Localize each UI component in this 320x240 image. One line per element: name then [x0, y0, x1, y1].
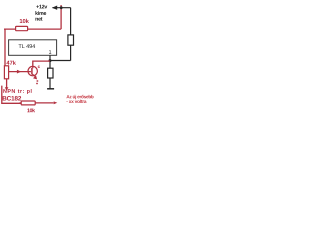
value label 47k — [6, 61, 15, 65]
ground bar — [47, 88, 54, 90]
wire: red riser from +12v node down to 10k row — [60, 5, 62, 29]
arrowhead right on bottom wire — [54, 101, 58, 104]
wire: pot bottom lead — [6, 79, 8, 88]
wire: wiper to transistor base — [9, 71, 31, 73]
transistor base bar — [31, 68, 33, 75]
wire: bottom resistor left stub — [20, 102, 22, 104]
note - xx voltra — [66, 100, 86, 103]
pin label 1 — [49, 50, 51, 54]
value label 10k — [20, 19, 29, 23]
transistor Q1 body circle — [28, 66, 37, 75]
pin label c — [38, 66, 40, 69]
wire: top resistor to junction row — [70, 45, 72, 60]
resistor R1 10k top — [16, 26, 28, 30]
wire: emitter diagonal — [32, 74, 35, 77]
resistor (top right) — [68, 35, 74, 45]
wire: black drop from +12v corner to top resistor — [70, 8, 72, 36]
label BC182 — [3, 96, 22, 101]
wire: bottom resistor to arrow — [35, 102, 54, 104]
wire: junction row horizontal — [50, 60, 71, 62]
node junction on +12v line — [60, 6, 63, 9]
wire: bottom-left L to bottom resistor — [2, 86, 21, 104]
label TL 494 — [19, 44, 36, 48]
arrowhead pointing left toward +12v label — [52, 6, 57, 10]
IC U1 TL494 box — [9, 40, 57, 56]
wire: +12v net horizontal at top — [53, 7, 71, 9]
wire: red left vertical — [4, 29, 6, 66]
wire: collector up to junction row — [33, 61, 50, 68]
wire: red top horizontal — [4, 28, 61, 30]
label NPN tr: pl — [3, 89, 31, 94]
note Az uj erosebb — [66, 95, 93, 99]
value label 10k bottom — [27, 108, 35, 112]
emitter continuation dots — [37, 80, 39, 81]
arrowhead on base wire — [17, 70, 21, 74]
arrowhead emitter pointing down-right — [33, 75, 37, 79]
resistor (middle) — [48, 68, 53, 78]
net label +12v kime net — [36, 5, 47, 9]
node junction at pin1 — [49, 59, 52, 62]
wire: TL494 pin1 drop — [49, 55, 51, 68]
arrowhead down at pot bottom lead — [5, 87, 9, 90]
wire: middle resistor to ground — [49, 78, 51, 89]
resistor R2 10k bottom — [21, 101, 35, 105]
potentiometer 47k body — [4, 66, 8, 79]
